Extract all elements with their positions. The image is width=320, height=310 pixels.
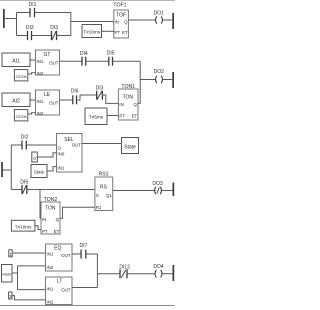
svg-text:OUT: OUT: [61, 253, 71, 258]
wire DI6 to RS1 S: [27, 189, 95, 191]
wire to contact DI2: [11, 144, 22, 146]
svg-text:OUT: OUT: [49, 61, 59, 66]
svg-text:TON: TON: [45, 206, 56, 212]
wire TOF1 Q to coil DO1: [128, 19, 155, 21]
wire TON1 Q to OR vertical: [138, 102, 141, 104]
svg-text:IN0: IN0: [58, 152, 65, 157]
flip-flop RS1: [95, 171, 113, 210]
wire T#5ms to TON1 PT: [107, 115, 118, 117]
svg-text:PT: PT: [42, 229, 48, 234]
wire T#10ms to PT: [102, 30, 114, 32]
svg-text:DI2: DI2: [21, 135, 29, 141]
contact DI4: [80, 51, 88, 66]
wire SEL OUT to State: [82, 143, 122, 145]
svg-text:State: State: [2, 273, 11, 277]
svg-text:DO1: DO1: [154, 11, 165, 17]
input AI1: [2, 53, 30, 67]
svg-text:PT: PT: [119, 114, 125, 119]
wire State to SEL IN1: [47, 167, 57, 171]
svg-text:DI4: DI4: [80, 51, 88, 57]
wire DI3 step down to TON1 IN: [102, 95, 118, 103]
wire merge vertical: [70, 13, 72, 36]
svg-text:IN1: IN1: [58, 166, 65, 171]
wire 22706 to LE IN2: [28, 113, 36, 114]
svg-text:TON: TON: [123, 95, 134, 101]
wire DI5 to OR vertical: [113, 60, 141, 62]
svg-text:Q: Q: [56, 217, 60, 222]
wire LE OUT to DI6: [60, 99, 73, 101]
svg-text:TOF: TOF: [116, 13, 126, 19]
timer TON2: [41, 197, 60, 234]
wire GT OUT to DI4: [60, 60, 83, 62]
timer TON1: [118, 84, 138, 120]
coil DO1: [154, 11, 165, 24]
svg-text:IN: IN: [42, 217, 46, 222]
svg-text:OUT: OUT: [61, 287, 71, 292]
svg-text:IN: IN: [115, 20, 119, 25]
svg-text:IN1: IN1: [37, 99, 44, 104]
left power rail (network 4): [1, 162, 3, 177]
value T#10ms (TOF1 PT): [82, 25, 102, 38]
svg-text:T#10ms: T#10ms: [83, 30, 100, 35]
wire split vertical: [17, 266, 19, 290]
contact DI6 (NC): [20, 180, 28, 195]
svg-text:R1: R1: [96, 205, 102, 210]
variable State (SEL IN1): [31, 165, 47, 178]
wire OR vertical (DI5 / TON1 Q): [139, 61, 141, 103]
wire DI2 to SEL G: [26, 144, 56, 146]
wire to contact DI1: [17, 12, 31, 14]
svg-text:AI2: AI2: [12, 99, 20, 105]
variable State (SEL result): [122, 138, 139, 154]
coil DO2: [154, 69, 165, 83]
svg-text:IN1: IN1: [47, 286, 54, 291]
wire split to LT IN1: [18, 289, 46, 291]
svg-text:LE: LE: [44, 92, 51, 98]
wire EQ OUT to DI7: [72, 253, 81, 255]
svg-text:DI12: DI12: [119, 265, 130, 271]
svg-text:IN2: IN2: [47, 265, 54, 270]
comparator GT: [36, 50, 60, 76]
value 22706 (LE IN2): [14, 110, 27, 121]
timer TOF1: [113, 3, 128, 39]
svg-text:GT: GT: [44, 52, 51, 58]
constant 3 (LT IN2): [9, 292, 12, 299]
wire DI1 to merge: [35, 12, 72, 14]
right power rail (network 2): [172, 72, 174, 88]
wire rail to branch: [3, 169, 11, 171]
wire DI6 step up to DI3: [77, 95, 97, 100]
svg-text:Q: Q: [124, 20, 128, 25]
svg-text:IN2: IN2: [37, 71, 44, 76]
svg-text:T#10ms: T#10ms: [15, 224, 32, 229]
wire 1 to EQ IN1: [12, 252, 45, 254]
right power rail (network 1): [172, 13, 174, 29]
constant 0 (SEL IN0): [32, 152, 38, 162]
wire branch vertical: [10, 145, 12, 190]
svg-text:T#5ms: T#5ms: [89, 115, 104, 120]
svg-text:PT: PT: [115, 30, 121, 35]
svg-text:RS1: RS1: [98, 171, 108, 177]
svg-text:S: S: [96, 193, 99, 198]
svg-text:DI6: DI6: [20, 180, 28, 186]
svg-text:DI3: DI3: [50, 25, 58, 31]
wire DI4 to DI5: [86, 60, 109, 62]
svg-text:DI7: DI7: [80, 243, 88, 249]
wire OR to coil DO2: [140, 79, 155, 81]
svg-text:State: State: [34, 170, 45, 175]
wire coil DO3 to rail: [162, 190, 173, 192]
wire junction down to TON2 IN: [39, 190, 41, 219]
wire 0 to SEL IN0: [37, 153, 56, 157]
wire split to EQ IN2: [18, 265, 46, 267]
svg-text:DO3: DO3: [152, 181, 163, 187]
wire coil DO1 to rail: [163, 19, 172, 21]
svg-text:DI1: DI1: [29, 2, 37, 8]
svg-text:AI1: AI1: [12, 59, 20, 65]
right power rail (network 5): [173, 183, 175, 197]
wire AI1 to GT IN1: [30, 59, 36, 61]
left power rail (network 1): [3, 9, 5, 28]
top border: [0, 0, 175, 2]
variable State (EQ IN2 / LT IN1): [2, 265, 13, 283]
svg-text:DI2: DI2: [26, 25, 34, 31]
wire branch to contact DI6: [11, 189, 22, 191]
wire DI2 to DI3: [32, 35, 52, 37]
value T#5ms (TON1 PT): [85, 108, 107, 125]
coil DO3 (negated): [152, 181, 163, 194]
svg-text:TOF1: TOF1: [113, 3, 126, 9]
svg-text:DI5: DI5: [107, 51, 115, 57]
wire T#10ms to TON2 PT: [35, 226, 41, 230]
contact DI6: [71, 89, 79, 105]
wire 22706 to GT IN2: [28, 73, 36, 74]
svg-text:DI3: DI3: [96, 86, 104, 92]
svg-text:EQ: EQ: [54, 245, 61, 251]
svg-text:LT: LT: [57, 279, 62, 285]
wire 3 to LT IN2: [12, 296, 46, 300]
svg-text:22706: 22706: [16, 74, 28, 79]
wire RS1 Q1 to coil DO3: [113, 190, 156, 192]
wire OR to DI12: [97, 273, 120, 275]
contact DI12 (NC): [119, 265, 130, 279]
contact DI1: [29, 2, 37, 17]
contact DI3 (NC): [96, 86, 104, 100]
wire stub to TON2 IN: [40, 217, 41, 219]
wire TON2 Q to RS1 R1: [60, 207, 95, 218]
svg-text:ET: ET: [122, 30, 128, 35]
selector SEL: [57, 134, 83, 173]
wire coil DO2 to rail: [163, 79, 172, 81]
svg-text:Q: Q: [133, 102, 137, 107]
svg-text:IN1: IN1: [37, 59, 44, 64]
comparator EQ: [46, 244, 73, 271]
bottom border: [0, 305, 175, 307]
comparator LE: [36, 90, 60, 116]
contact DI2: [21, 135, 29, 150]
svg-text:IN: IN: [119, 102, 123, 107]
wire branch vertical: [16, 13, 18, 36]
svg-text:OUT: OUT: [49, 101, 59, 106]
comparator LT: [46, 277, 73, 305]
constant 1 (EQ IN1): [9, 250, 12, 257]
svg-text:ET: ET: [132, 114, 138, 119]
wire DI3 to merge: [57, 35, 72, 37]
right power rail (network 6): [173, 265, 175, 281]
svg-text:State: State: [124, 145, 136, 151]
svg-text:ET: ET: [54, 229, 60, 234]
wire OR vertical (DI7 / LT OUT): [96, 254, 98, 288]
contact DI7: [80, 243, 88, 259]
svg-text:IN1: IN1: [47, 251, 54, 256]
svg-text:IN2: IN2: [37, 111, 44, 116]
contact DI5: [107, 51, 115, 66]
svg-text:DO4: DO4: [153, 264, 164, 270]
contact DI2: [26, 25, 34, 40]
wire State to split: [12, 272, 18, 274]
svg-text:22706: 22706: [16, 114, 28, 119]
svg-text:IN2: IN2: [47, 299, 54, 304]
coil DO4: [153, 264, 164, 277]
svg-text:DI6: DI6: [71, 89, 79, 95]
wire DI7 to OR vertical: [86, 253, 98, 255]
wire merge to TOF1 IN: [71, 21, 114, 23]
wire rail to branch: [5, 18, 17, 20]
contact DI3 (NC): [50, 25, 58, 40]
wire LT OUT to OR vertical: [72, 287, 97, 289]
input AI2: [2, 93, 30, 107]
svg-text:OUT: OUT: [72, 143, 82, 148]
wire to contact DI2: [17, 35, 28, 37]
svg-text:DO2: DO2: [154, 69, 165, 75]
svg-text:RS: RS: [100, 184, 108, 190]
value T#10ms (TON2 PT): [11, 220, 35, 231]
wire AI2 to LE IN1: [30, 99, 36, 101]
svg-text:Q1: Q1: [106, 193, 112, 198]
wire coil DO4 to rail: [162, 273, 172, 275]
svg-text:G: G: [58, 145, 62, 150]
wire DI12 to coil DO4: [127, 273, 155, 275]
value 22706 (GT IN2): [14, 70, 27, 81]
